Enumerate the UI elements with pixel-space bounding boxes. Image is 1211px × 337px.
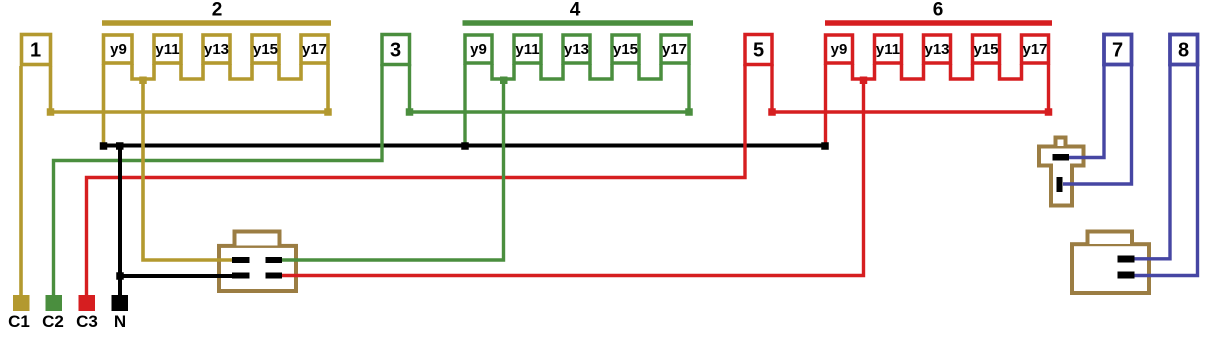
wire green 3-left to C2 xyxy=(54,64,383,298)
svg-text:y9: y9 xyxy=(831,41,848,58)
box 5 xyxy=(745,35,772,65)
svg-text:y15: y15 xyxy=(973,41,998,58)
pin box 6/y15 xyxy=(973,35,1000,63)
wire red bus y112 xyxy=(772,110,1049,113)
box 8 xyxy=(1170,35,1198,65)
pin T2b/2 xyxy=(1057,177,1063,192)
junction black gold-tap xyxy=(100,142,108,150)
pin box 2/y15 xyxy=(252,35,279,63)
svg-text:y13: y13 xyxy=(204,41,229,58)
pin box 4/y11 xyxy=(514,35,541,63)
junction red A xyxy=(768,108,776,116)
box 3 xyxy=(382,35,410,65)
terminal C3 xyxy=(76,295,98,331)
junction green B xyxy=(685,108,693,116)
pin box 6/y11 xyxy=(875,35,902,63)
terminal N xyxy=(112,295,129,331)
wire red 5-right down xyxy=(770,64,773,112)
junction red B xyxy=(1045,108,1053,116)
wire black to connector pin xyxy=(120,274,233,278)
pin box 6/y13 xyxy=(924,35,951,63)
pin box 2/y17 xyxy=(301,35,328,63)
bus bar 6 xyxy=(825,20,1052,26)
junction green A xyxy=(406,108,414,116)
junction gold B xyxy=(324,108,332,116)
wire gold y9-left to black bus xyxy=(102,64,106,146)
connector 4 comb xyxy=(492,64,661,79)
svg-text:2: 2 xyxy=(212,0,223,21)
bus bar 4 xyxy=(463,20,694,26)
svg-text:y13: y13 xyxy=(924,41,949,58)
pin box 4/y17 xyxy=(661,35,689,63)
svg-text:C2: C2 xyxy=(42,312,64,331)
svg-text:y9: y9 xyxy=(470,41,487,58)
wire gold comb drop to connector xyxy=(143,79,233,260)
pin box 2/y13 xyxy=(203,35,230,63)
svg-text:1: 1 xyxy=(30,40,41,62)
wire red comb drop to connector xyxy=(282,79,864,276)
svg-text:6: 6 xyxy=(933,0,944,21)
junction black connector-tap xyxy=(116,272,124,280)
svg-text:y11: y11 xyxy=(515,41,539,58)
pin box 6/y9 xyxy=(826,35,853,63)
wire gold bus y112 xyxy=(51,110,329,114)
svg-text:7: 7 xyxy=(1112,40,1123,62)
pin T4a/1 xyxy=(232,257,250,263)
pin T2b/1 xyxy=(1053,154,1070,161)
pin T4a/4 xyxy=(266,273,283,279)
svg-text:y17: y17 xyxy=(1022,41,1047,58)
junction black green-tap xyxy=(461,142,469,150)
svg-text:C3: C3 xyxy=(76,312,98,331)
wire blue 8-left to T2c pin1 xyxy=(1134,64,1170,259)
wire green bus y112 xyxy=(410,110,690,113)
svg-text:3: 3 xyxy=(390,40,401,62)
svg-text:8: 8 xyxy=(1178,40,1189,62)
box 1 xyxy=(22,35,51,65)
svg-text:y15: y15 xyxy=(253,41,278,58)
wire black bus N xyxy=(104,144,826,148)
connector 6 comb xyxy=(853,64,1022,79)
connector 2 comb xyxy=(132,64,301,79)
wire blue 8-right to T2c pin2 xyxy=(1134,64,1198,276)
wire black N drop xyxy=(118,146,122,299)
wire gold 1-left to C1 xyxy=(19,66,23,298)
terminal C1 xyxy=(8,295,30,331)
terminal C2 xyxy=(42,295,64,331)
pin T2c/2 xyxy=(1118,272,1135,279)
svg-text:y9: y9 xyxy=(110,41,127,58)
wire red y17-right down xyxy=(1047,64,1050,112)
svg-text:5: 5 xyxy=(753,40,764,62)
wire green y17-right down xyxy=(687,64,690,112)
pin box 2/y9 xyxy=(104,35,133,63)
svg-text:y15: y15 xyxy=(613,41,638,58)
junction red comb xyxy=(860,77,868,85)
connector T2c body (bottom-right 2-pin plug) xyxy=(1072,232,1149,294)
svg-text:y11: y11 xyxy=(876,41,900,58)
svg-text:y17: y17 xyxy=(302,41,327,58)
pin T4a/2 xyxy=(266,257,283,263)
svg-text:y13: y13 xyxy=(564,41,589,58)
junction black N-drop xyxy=(116,142,124,150)
pin box 4/y9 xyxy=(465,35,492,63)
box 7 xyxy=(1104,35,1132,65)
svg-text:4: 4 xyxy=(570,0,581,21)
pin box 4/y15 xyxy=(612,35,639,63)
wire red 5-left to C3 xyxy=(87,64,746,298)
pin box 6/y17 xyxy=(1022,35,1049,63)
connector T2b body (right T-shaped plug) xyxy=(1039,138,1084,206)
svg-text:y11: y11 xyxy=(155,41,179,58)
bus bar 2 xyxy=(102,20,331,26)
pin T2c/1 xyxy=(1118,256,1135,263)
wire blue 7-left to T2b pin1 xyxy=(1069,64,1104,158)
pin box 2/y11 xyxy=(154,35,181,63)
wire green comb drop to connector xyxy=(282,79,504,260)
junction gold A xyxy=(47,108,55,116)
wire blue 7-right to T2b pin2 xyxy=(1063,64,1132,184)
wire gold 1-right down xyxy=(49,66,53,112)
svg-text:C1: C1 xyxy=(8,312,30,331)
junction gold comb xyxy=(139,77,147,85)
wire green 3-right down xyxy=(408,64,411,112)
junction black red-tap xyxy=(821,142,829,150)
wire red y9-left to black bus xyxy=(824,64,827,146)
junction green comb xyxy=(500,77,508,85)
pin box 4/y13 xyxy=(563,35,590,63)
connector T4a body (center 4-pin plug) xyxy=(219,232,296,292)
wire gold y17-right down xyxy=(326,64,330,112)
svg-text:N: N xyxy=(114,312,126,331)
pin T4a/3 xyxy=(232,273,250,279)
wire green y9-left to black bus xyxy=(463,64,466,146)
svg-text:y17: y17 xyxy=(662,41,687,58)
